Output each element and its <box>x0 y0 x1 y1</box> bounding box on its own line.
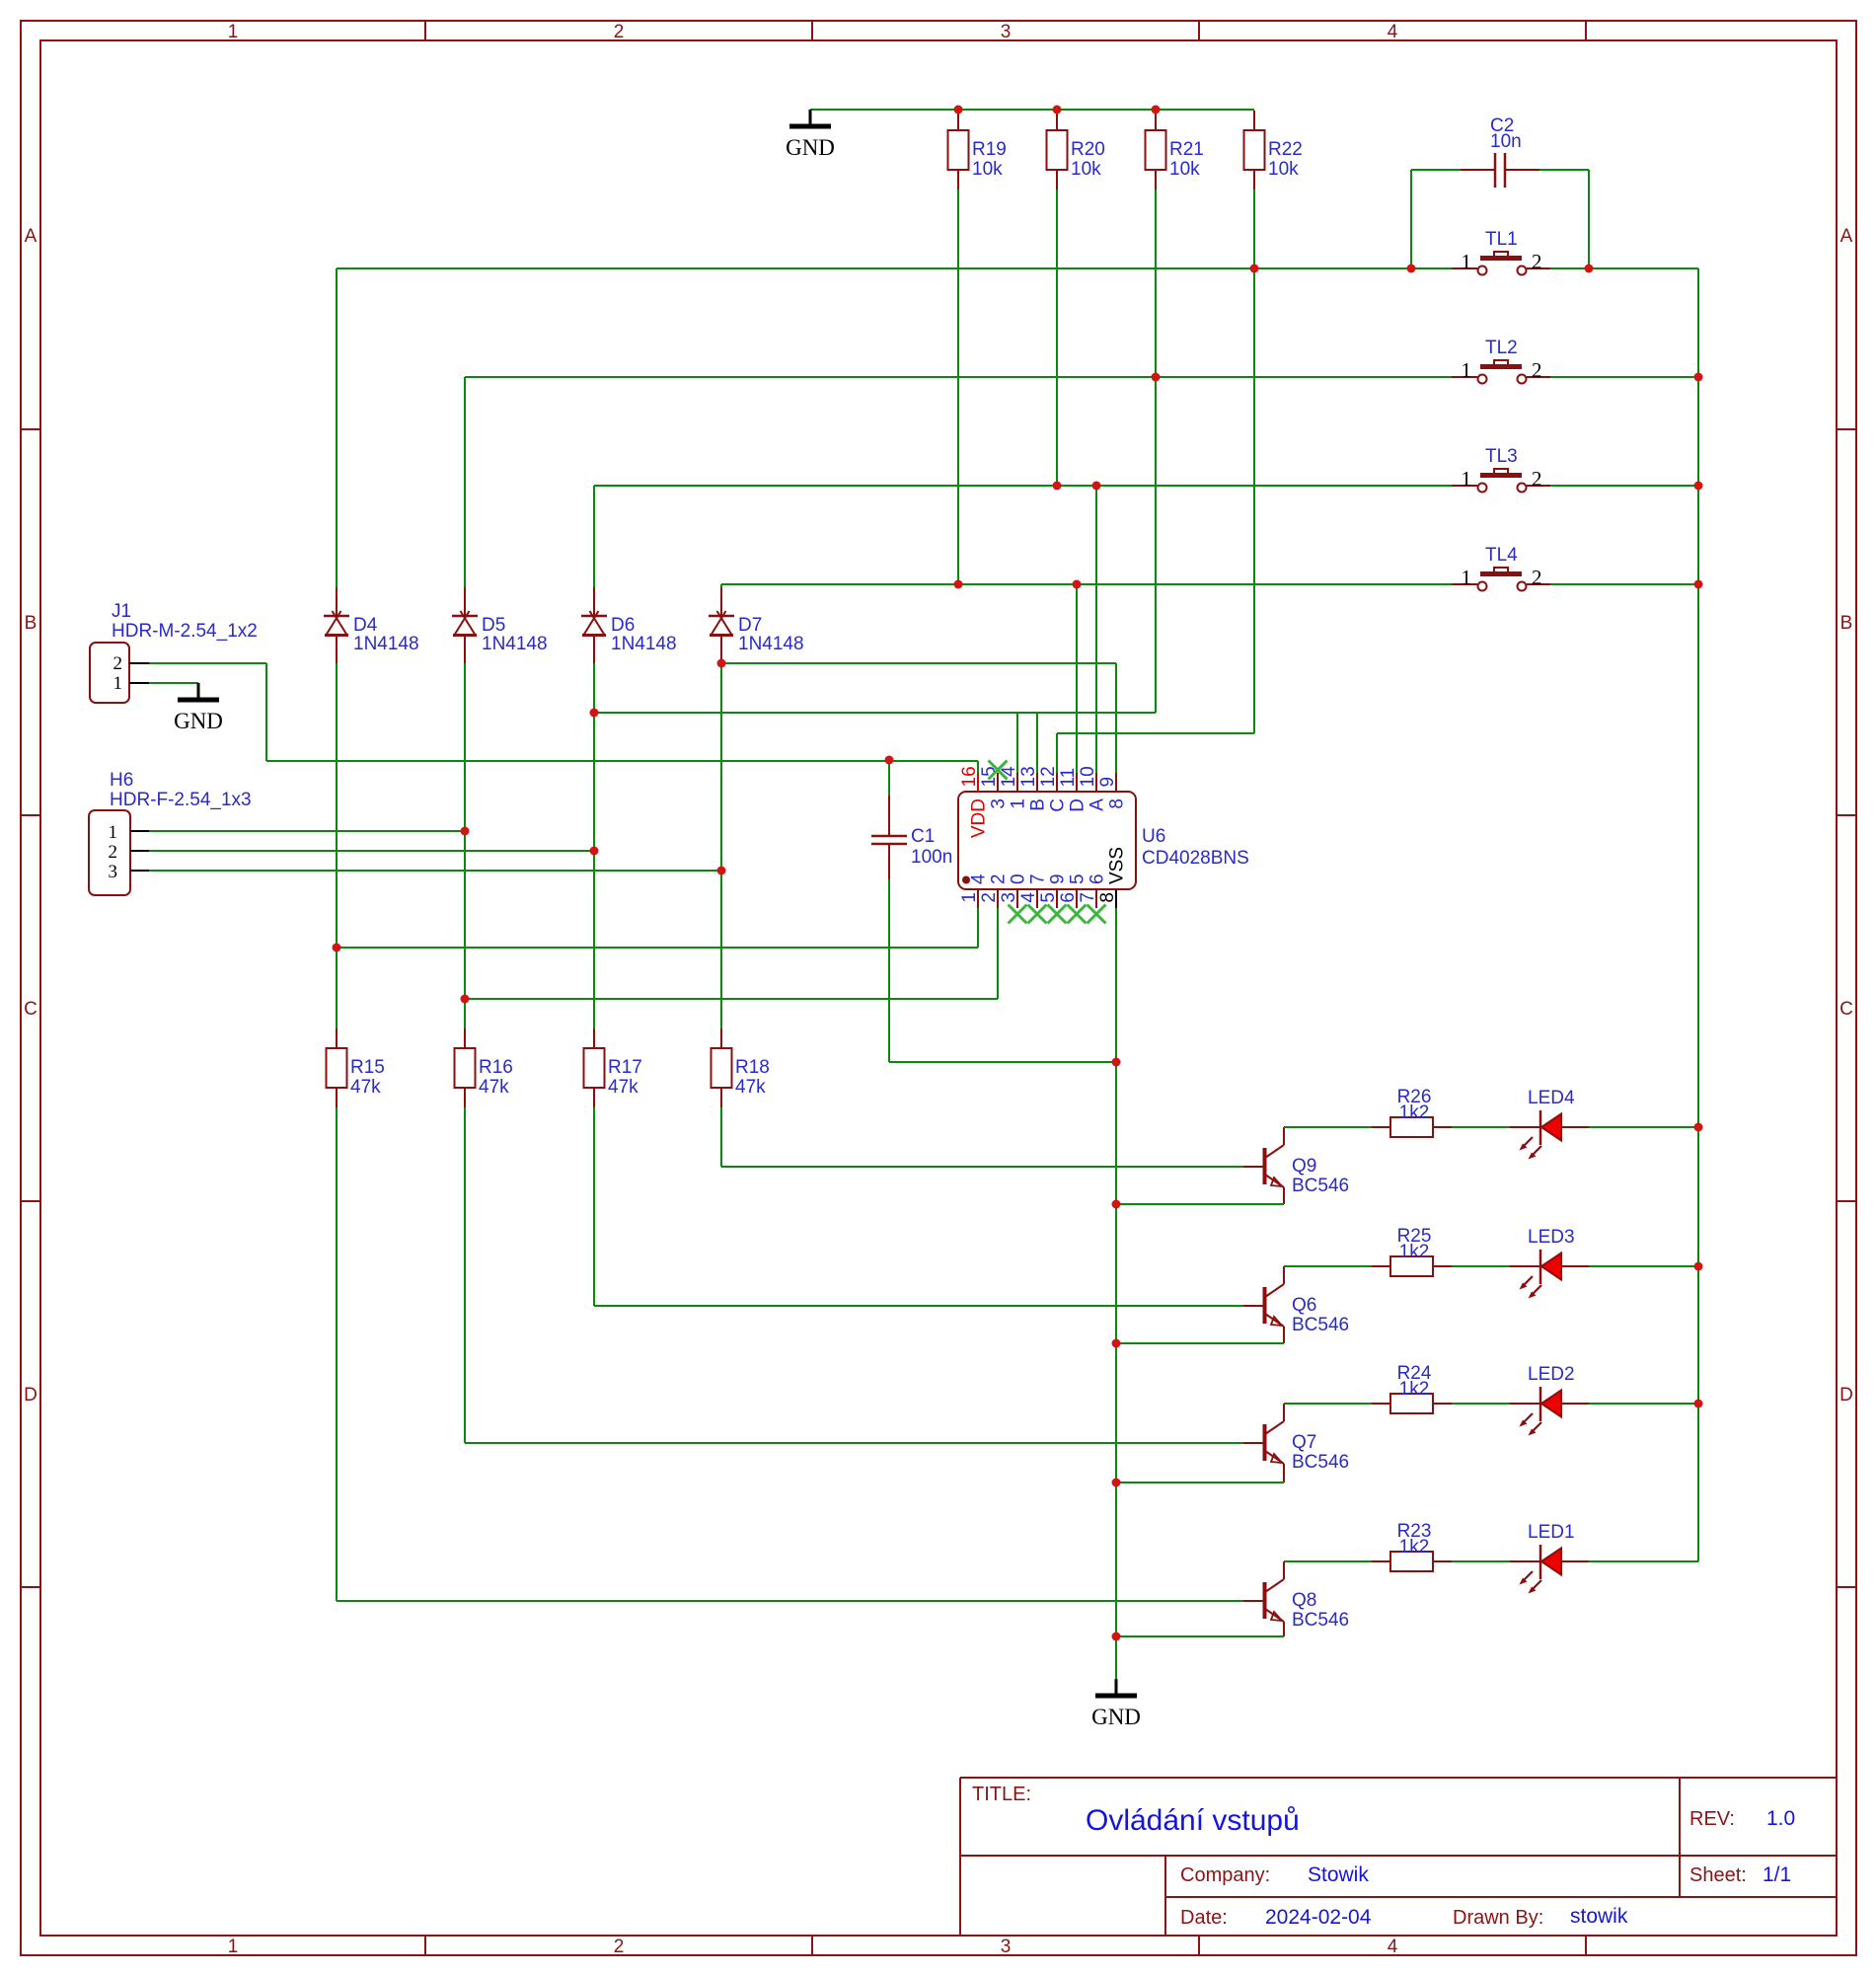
wire button row y=492 right <box>1550 485 1698 487</box>
no-connect X pin x=1031 <box>1009 905 1027 924</box>
resistor R24 <box>1372 1403 1390 1405</box>
svg-text:1N4148: 1N4148 <box>482 634 548 654</box>
svg-text:1: 1 <box>113 673 123 694</box>
wire <box>1539 169 1589 171</box>
svg-text:LED4: LED4 <box>1528 1088 1575 1108</box>
resistor R22 <box>1253 111 1255 130</box>
wire to pin13 <box>1036 713 1038 773</box>
svg-text:Q9: Q9 <box>1292 1156 1316 1177</box>
U6 bottom pin 3 <box>1016 889 1018 908</box>
wire to pin14 <box>1016 713 1018 773</box>
U6 bottom pin 5 <box>1056 889 1058 908</box>
junction (971,592) <box>954 580 963 589</box>
wire C2 left down <box>1410 170 1412 268</box>
svg-text:8: 8 <box>1107 798 1128 809</box>
svg-text:4: 4 <box>969 874 990 884</box>
no-connect X pin x=1071 <box>1048 905 1067 924</box>
svg-text:7: 7 <box>1028 874 1049 884</box>
wire R23 to LED1 <box>1452 1560 1510 1562</box>
svg-text:R17: R17 <box>608 1057 642 1078</box>
wire button row y=272 right <box>1550 267 1698 269</box>
svg-text:R21: R21 <box>1169 139 1204 160</box>
diode D6 <box>593 587 595 616</box>
junction (1721,592) <box>1694 580 1703 589</box>
wire C1 to VSS rail <box>889 1061 1116 1063</box>
wire button row y=272 left <box>337 267 1452 269</box>
resistor R23 <box>1372 1560 1390 1562</box>
svg-text:Q6: Q6 <box>1292 1295 1316 1316</box>
wire <box>1411 169 1461 171</box>
no-connect X pin x=1111 <box>1088 905 1106 924</box>
svg-text:D4: D4 <box>353 615 378 636</box>
wire D6 anode down to R17 <box>593 663 595 1028</box>
svg-text:TL2: TL2 <box>1485 338 1518 358</box>
svg-text:12: 12 <box>1038 766 1059 787</box>
junction (1721,492) <box>1694 482 1703 491</box>
wire button row y=492 left <box>594 485 1452 487</box>
wire pin2 down <box>997 908 999 999</box>
svg-text:47k: 47k <box>479 1077 509 1098</box>
svg-text:9: 9 <box>1048 874 1069 884</box>
wire J1 pin2 <box>149 662 266 664</box>
wire to pin9 <box>1115 663 1117 773</box>
resistor R21 <box>1155 111 1157 130</box>
junction (901,770) <box>885 756 894 765</box>
junction (1721,382) <box>1694 373 1703 382</box>
wire TL3 row to pin10 <box>1095 486 1097 773</box>
svg-text:D: D <box>1839 1385 1853 1406</box>
wire R15 down to Q8 base row <box>336 1107 338 1601</box>
svg-text:47k: 47k <box>735 1077 766 1098</box>
svg-text:0: 0 <box>1009 874 1029 884</box>
U6 bottom pin 7 <box>1095 889 1097 908</box>
svg-text:6: 6 <box>1058 892 1079 903</box>
wire Q9 base row <box>721 1166 1243 1168</box>
svg-text:2024-02-04: 2024-02-04 <box>1265 1906 1372 1929</box>
svg-text:Ovládání vstupů: Ovládání vstupů <box>1086 1804 1300 1837</box>
wire pin2 row to D5 column <box>465 998 998 1000</box>
U6 bottom pin 2 <box>997 889 999 908</box>
svg-text:1: 1 <box>1462 467 1472 491</box>
svg-text:2: 2 <box>979 892 1000 903</box>
U6 top pin 15 <box>997 773 999 792</box>
svg-text:7: 7 <box>1078 892 1098 903</box>
svg-text:10k: 10k <box>1169 159 1200 180</box>
connector J1 <box>90 643 129 703</box>
svg-text:LED3: LED3 <box>1528 1227 1575 1248</box>
junction (1271,272) <box>1250 265 1259 273</box>
svg-text:11: 11 <box>1058 768 1079 788</box>
junction (341,960) <box>333 944 341 952</box>
wire LED2 to right rail <box>1589 1403 1698 1405</box>
junction (471,842) <box>461 827 470 836</box>
wire button row y=592 right <box>1550 583 1698 585</box>
svg-text:14: 14 <box>999 766 1019 788</box>
svg-text:1: 1 <box>228 1937 239 1957</box>
junction (1171,111) <box>1152 106 1161 114</box>
wire R26 to LED4 <box>1452 1126 1510 1128</box>
transistor Q8 <box>1263 1582 1267 1619</box>
svg-text:2: 2 <box>1532 467 1542 491</box>
wire Q7 emitter to VSS rail <box>1116 1482 1284 1483</box>
svg-text:10k: 10k <box>1071 159 1101 180</box>
svg-text:Drawn By:: Drawn By: <box>1453 1907 1543 1929</box>
svg-text:100n: 100n <box>911 847 952 868</box>
wire R25 to LED3 <box>1452 1265 1510 1267</box>
svg-text:REV:: REV: <box>1689 1808 1735 1830</box>
wire Q8 collector to R23 <box>1284 1560 1372 1562</box>
svg-text:9: 9 <box>1097 777 1118 788</box>
wire J1 pin1 <box>149 682 198 684</box>
diode D5 <box>464 587 466 616</box>
wire pin1 row to D4 column <box>337 947 978 949</box>
svg-text:3: 3 <box>999 892 1019 903</box>
wire to pin16 <box>977 761 979 773</box>
transistor Q7 <box>1263 1424 1267 1461</box>
junction (1171,382) <box>1152 373 1161 382</box>
svg-text:BC546: BC546 <box>1292 1452 1349 1473</box>
title block <box>960 1777 1837 1779</box>
svg-text:R20: R20 <box>1071 139 1105 160</box>
svg-text:10n: 10n <box>1490 131 1522 152</box>
svg-text:GND: GND <box>174 709 223 733</box>
wire C1 bottom down <box>888 879 890 1062</box>
svg-text:Company:: Company: <box>1180 1864 1270 1886</box>
junction (1430,272) <box>1407 265 1416 273</box>
wire TL3 row to D6 <box>593 486 595 587</box>
no-connect X pin15 <box>989 761 1008 780</box>
wire D7 anode down to R18 <box>720 663 722 1028</box>
wire D6 node link to R21 <box>594 712 1156 714</box>
svg-text:10: 10 <box>1078 766 1098 787</box>
svg-text:47k: 47k <box>608 1077 638 1098</box>
svg-text:1N4148: 1N4148 <box>611 634 677 654</box>
pushbutton TL2 <box>1452 376 1477 378</box>
svg-text:C1: C1 <box>911 826 935 847</box>
U6 top pin 9 <box>1115 773 1117 792</box>
junction (971,111) <box>954 106 963 114</box>
svg-text:TITLE:: TITLE: <box>972 1784 1031 1805</box>
wire D5 anode down to R16 <box>464 663 466 1028</box>
junction (1131,1361) <box>1112 1339 1121 1348</box>
ground <box>809 110 812 125</box>
svg-text:U6: U6 <box>1142 826 1165 847</box>
svg-text:3: 3 <box>989 798 1010 809</box>
svg-text:8: 8 <box>1097 892 1118 903</box>
svg-text:2: 2 <box>1532 566 1542 589</box>
wire R19 to TL4 row <box>957 190 959 584</box>
wire VSS rail down to GND <box>1115 908 1117 1679</box>
wire Q9 collector to R26 <box>1284 1126 1372 1128</box>
no-connect X pin x=1091 <box>1068 905 1087 924</box>
svg-text:2: 2 <box>614 22 625 42</box>
resistor R25 <box>1372 1265 1390 1267</box>
svg-text:stowik: stowik <box>1570 1905 1628 1928</box>
ground GND bottom <box>1115 1679 1118 1695</box>
wire Q8 emitter to VSS rail <box>1116 1635 1284 1637</box>
wire Q6 base row <box>594 1305 1243 1307</box>
svg-text:CD4028BNS: CD4028BNS <box>1142 848 1249 869</box>
svg-text:GND: GND <box>1091 1705 1141 1729</box>
svg-text:2: 2 <box>1532 250 1542 273</box>
svg-text:3: 3 <box>1001 22 1012 42</box>
svg-text:6: 6 <box>1088 874 1108 884</box>
wire Q7 base row <box>465 1442 1243 1444</box>
U6 top pin 14 <box>1016 773 1018 792</box>
wire LED4 to right rail <box>1589 1126 1698 1128</box>
junction (602,722) <box>590 709 599 718</box>
wire R22 link to pin12 <box>1057 732 1254 734</box>
wire pin1 down <box>977 908 979 948</box>
wire R22 down to pin12 link <box>1253 190 1255 733</box>
wire Q9 emitter to VSS rail <box>1116 1203 1284 1205</box>
svg-text:1N4148: 1N4148 <box>353 634 419 654</box>
pushbutton TL4 <box>1452 583 1477 585</box>
svg-text:3: 3 <box>109 862 118 882</box>
svg-text:1: 1 <box>959 892 980 903</box>
wire LED1 to right rail <box>1589 1560 1698 1562</box>
U6 top pin 10 <box>1095 773 1097 792</box>
svg-text:1k2: 1k2 <box>1399 1102 1430 1123</box>
junction (1131,1220) <box>1112 1200 1121 1209</box>
svg-text:B: B <box>25 613 38 634</box>
diode D4 <box>336 587 338 616</box>
wire R16 down to Q7 base row <box>464 1107 466 1443</box>
wire TL4 row to pin11 <box>1076 584 1078 773</box>
wire J1 pin2 riser <box>265 663 267 761</box>
svg-text:A: A <box>1088 798 1108 811</box>
wire TL2 row to D5 <box>464 377 466 587</box>
wire D4 anode down to R15 <box>336 663 338 1028</box>
U6 top pin 13 <box>1036 773 1038 792</box>
svg-text:D6: D6 <box>611 615 635 636</box>
wire Q7 collector to R24 <box>1284 1403 1372 1405</box>
LED LED3 <box>1510 1265 1540 1267</box>
svg-text:BC546: BC546 <box>1292 1315 1349 1335</box>
wire <box>888 760 890 796</box>
svg-text:BC546: BC546 <box>1292 1610 1349 1631</box>
svg-text:LED1: LED1 <box>1528 1522 1575 1543</box>
svg-text:47k: 47k <box>350 1077 381 1098</box>
junction (1721,1142) <box>1694 1123 1703 1132</box>
svg-text:2: 2 <box>989 874 1010 884</box>
wire Q6 emitter to VSS rail <box>1116 1342 1284 1344</box>
resistor R16 <box>464 1028 466 1048</box>
wire D7 node to U6 pin9 <box>721 662 1116 664</box>
svg-text:Sheet:: Sheet: <box>1689 1864 1747 1886</box>
svg-text:4: 4 <box>1388 1937 1398 1957</box>
svg-text:2: 2 <box>614 1937 625 1957</box>
wire H6 pin3 to D7 column <box>149 870 721 872</box>
svg-text:C: C <box>24 999 38 1020</box>
wire H6 pin1 to D5 column <box>149 830 465 832</box>
IC U6 CD4028BNS body <box>958 792 1136 889</box>
LED LED4 <box>1510 1126 1540 1128</box>
resistor R19 <box>957 111 959 130</box>
U6 top pin 11 <box>1076 773 1078 792</box>
wire to pin12 <box>1056 733 1058 773</box>
wire Q6 collector to R25 <box>1284 1265 1372 1267</box>
wire R17 down to Q6 base row <box>593 1107 595 1306</box>
U6 top pin 12 <box>1056 773 1058 792</box>
wire R18 down to Q9 base row <box>720 1107 722 1167</box>
svg-text:16: 16 <box>959 766 980 787</box>
svg-text:R18: R18 <box>735 1057 770 1078</box>
svg-text:13: 13 <box>1018 766 1039 787</box>
resistor R20 <box>1056 111 1058 130</box>
svg-text:1: 1 <box>109 822 118 843</box>
svg-text:D: D <box>1068 798 1088 812</box>
svg-text:D7: D7 <box>738 615 762 636</box>
U6 bottom pin 4 <box>1036 889 1038 908</box>
junction (731,672) <box>717 659 726 668</box>
wire TL4 row to D7 <box>720 584 722 587</box>
U6 bottom pin 6 <box>1076 889 1078 908</box>
U6 top pin 16 <box>977 773 979 792</box>
svg-text:1: 1 <box>1009 798 1029 809</box>
svg-text:HDR-F-2.54_1x3: HDR-F-2.54_1x3 <box>110 790 252 810</box>
connector H6 <box>89 810 130 895</box>
wire TL1 row to D4 <box>336 268 338 587</box>
svg-text:1: 1 <box>1462 250 1472 273</box>
svg-text:1: 1 <box>1462 358 1472 382</box>
svg-text:Q8: Q8 <box>1292 1590 1316 1611</box>
svg-text:4: 4 <box>1388 22 1398 42</box>
transistor Q6 <box>1263 1287 1267 1324</box>
svg-text:1k2: 1k2 <box>1399 1242 1430 1262</box>
svg-text:R22: R22 <box>1268 139 1303 160</box>
svg-text:5: 5 <box>1038 892 1059 903</box>
wire LED3 to right rail <box>1589 1265 1698 1267</box>
svg-text:VSS: VSS <box>1107 847 1128 884</box>
svg-text:R16: R16 <box>479 1057 513 1078</box>
svg-text:Date:: Date: <box>1180 1907 1228 1929</box>
junction (1091,592) <box>1073 580 1082 589</box>
wire R20 to TL3 row <box>1056 190 1058 486</box>
svg-text:TL1: TL1 <box>1485 229 1518 250</box>
svg-text:Q7: Q7 <box>1292 1432 1316 1453</box>
wire C2 right down <box>1588 170 1590 268</box>
svg-text:J1: J1 <box>112 601 131 622</box>
svg-text:5: 5 <box>1068 874 1088 884</box>
junction (1071,111) <box>1053 106 1062 114</box>
LED LED2 <box>1510 1403 1540 1405</box>
svg-text:TL3: TL3 <box>1485 446 1518 467</box>
junction (1610,272) <box>1585 265 1594 273</box>
wire button row y=592 left <box>721 583 1452 585</box>
svg-text:C: C <box>1048 798 1069 812</box>
svg-text:H6: H6 <box>110 770 133 791</box>
no-connect X pin x=1051 <box>1028 905 1047 924</box>
junction (1111,492) <box>1092 482 1101 491</box>
wire right rail <box>1697 268 1699 1561</box>
U6 bottom pin 1 <box>977 889 979 908</box>
resistor R26 <box>1372 1126 1390 1128</box>
svg-text:3: 3 <box>1001 1937 1012 1957</box>
wire J1 pin2 to U6 pin16 row <box>266 760 978 762</box>
svg-text:B: B <box>1840 613 1853 634</box>
resistor R15 <box>336 1028 338 1048</box>
wire <box>810 109 1254 111</box>
svg-text:A: A <box>25 226 38 247</box>
svg-text:1/1: 1/1 <box>1763 1863 1791 1886</box>
svg-text:2: 2 <box>109 842 118 863</box>
svg-text:R15: R15 <box>350 1057 385 1078</box>
svg-text:LED2: LED2 <box>1528 1364 1575 1385</box>
pushbutton TL1 <box>1452 267 1477 269</box>
svg-text:R19: R19 <box>972 139 1007 160</box>
wire R21 down to pin14 link <box>1155 190 1157 713</box>
ground GND at J1 <box>197 683 200 699</box>
junction (1721,1283) <box>1694 1262 1703 1271</box>
svg-text:10k: 10k <box>1268 159 1299 180</box>
svg-text:1.0: 1.0 <box>1766 1807 1795 1830</box>
svg-text:1N4148: 1N4148 <box>738 634 804 654</box>
junction (1721,1422) <box>1694 1400 1703 1408</box>
diode D7 <box>720 587 722 616</box>
svg-text:B: B <box>1028 798 1049 811</box>
junction (602,862) <box>590 847 599 856</box>
resistor R18 <box>720 1028 722 1048</box>
svg-text:BC546: BC546 <box>1292 1176 1349 1196</box>
svg-text:1: 1 <box>1462 566 1472 589</box>
svg-text:HDR-M-2.54_1x2: HDR-M-2.54_1x2 <box>112 621 258 642</box>
svg-text:D5: D5 <box>482 615 505 636</box>
junction (1131,1502) <box>1112 1479 1121 1487</box>
svg-text:Stowik: Stowik <box>1308 1863 1369 1886</box>
wire button row y=382 left <box>465 376 1452 378</box>
svg-text:D: D <box>24 1385 38 1406</box>
svg-text:2: 2 <box>1532 358 1542 382</box>
wire R24 to LED2 <box>1452 1403 1510 1405</box>
wire button row y=382 right <box>1550 376 1698 378</box>
resistor R17 <box>593 1028 595 1048</box>
svg-text:10k: 10k <box>972 159 1003 180</box>
pushbutton TL3 <box>1452 485 1477 487</box>
svg-text:1k2: 1k2 <box>1399 1537 1430 1558</box>
wire Q8 base row <box>337 1600 1243 1602</box>
svg-text:TL4: TL4 <box>1485 545 1518 566</box>
wire H6 pin2 to D6 column <box>149 850 594 852</box>
junction (471,1012) <box>461 995 470 1004</box>
svg-text:GND: GND <box>786 135 835 160</box>
junction (731,882) <box>717 867 726 875</box>
svg-text:C: C <box>1839 999 1853 1020</box>
transistor Q9 <box>1263 1148 1267 1184</box>
svg-text:2: 2 <box>113 653 123 674</box>
svg-text:1: 1 <box>228 22 239 42</box>
junction (1131,1076) <box>1112 1058 1121 1067</box>
svg-text:VDD: VDD <box>969 798 990 838</box>
U6 bottom pin 8 <box>1115 889 1117 908</box>
LED LED1 <box>1510 1560 1540 1562</box>
svg-text:A: A <box>1840 226 1853 247</box>
svg-text:1k2: 1k2 <box>1399 1379 1430 1400</box>
junction (1131,1658) <box>1112 1633 1121 1641</box>
svg-text:4: 4 <box>1018 892 1039 903</box>
junction (1071,492) <box>1053 482 1062 491</box>
